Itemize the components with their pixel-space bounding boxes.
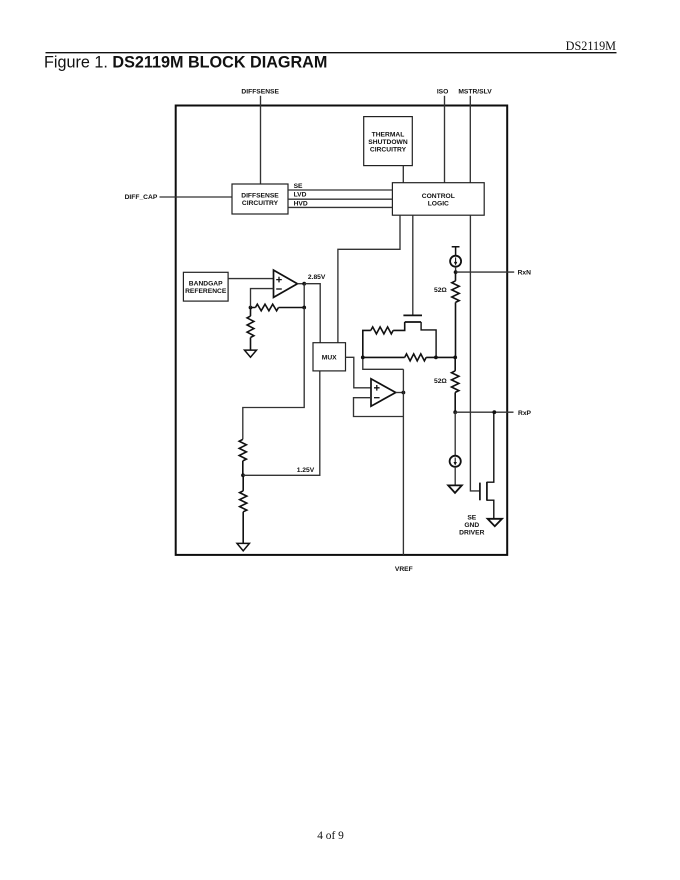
node feedback left junction [249, 306, 253, 310]
svg-text:THERMAL: THERMAL [372, 131, 405, 138]
svg-text:ISO: ISO [437, 89, 449, 96]
node U2 output junction [402, 391, 406, 395]
svg-text:DRIVER: DRIVER [459, 529, 484, 536]
block U7 MUX [313, 343, 346, 371]
ground G4 [488, 519, 502, 526]
wire bandgap to U1 noninverting input [228, 278, 273, 280]
wire U2 feedback loop [354, 398, 404, 417]
wire VREF vertical [402, 369, 404, 555]
transistor M2 SE GND driver [479, 483, 481, 501]
svg-text:VREF: VREF [395, 566, 413, 573]
wire 1.25V to MUX input [243, 371, 320, 475]
node RxN junction [454, 270, 458, 274]
wire RxP [455, 411, 513, 413]
transistor M1 [403, 314, 422, 316]
svg-text:Figure 1. DS2119M BLOCK DIAGRA: Figure 1. DS2119M BLOCK DIAGRAM [44, 54, 327, 72]
wire RxP node to I2 [454, 412, 456, 455]
block U5 DIFFSENSE CIRCUITRY [232, 184, 288, 214]
svg-text:52Ω: 52Ω [434, 378, 447, 385]
svg-text:BANDGAP: BANDGAP [189, 281, 223, 288]
svg-text:MUX: MUX [322, 354, 337, 361]
wire RxN [456, 271, 515, 273]
wire ISO pin to CONTROL LOGIC [444, 96, 446, 183]
svg-text:CIRCUITRY: CIRCUITRY [370, 146, 407, 153]
node B junction [434, 356, 438, 360]
wire thermal shutdown to control logic [402, 166, 404, 183]
node feedback right junction [302, 306, 306, 310]
svg-text:LOGIC: LOGIC [428, 201, 449, 208]
wire I2 to ground [454, 467, 456, 486]
node C junction [453, 356, 457, 360]
resistor R2 to ground [247, 308, 254, 351]
svg-text:DIFF_CAP: DIFF_CAP [125, 194, 158, 201]
resistor R6 middle [363, 354, 455, 361]
node RxP junction [453, 410, 457, 414]
ground G1 [245, 350, 257, 357]
op-amp U2 [371, 379, 396, 406]
svg-text:HVD: HVD [294, 200, 308, 207]
ground G2 [237, 543, 249, 550]
svg-text:52Ω: 52Ω [434, 287, 447, 294]
resistor R1 feedback [251, 304, 305, 311]
svg-text:CIRCUITRY: CIRCUITRY [242, 200, 279, 207]
resistor R3 divider upper [239, 439, 246, 475]
wire HVD net [288, 206, 392, 208]
supply tick [452, 247, 460, 256]
svg-text:GND: GND [464, 522, 479, 529]
wire U1 output [297, 283, 304, 285]
svg-text:SE: SE [467, 514, 476, 521]
wire node A to VREF rail [363, 357, 404, 369]
wire 2.85V to MUX input [304, 284, 320, 343]
wire U1 output to feedback node [303, 284, 305, 308]
wire LVD net [288, 198, 392, 200]
svg-text:DIFFSENSE: DIFFSENSE [241, 89, 279, 96]
block U3 THERMAL SHUTDOWN CIRCUITRY [364, 117, 413, 166]
wire 2.85V node down to divider [243, 308, 304, 440]
node M2 drain junction [492, 410, 496, 414]
svg-text:CONTROL: CONTROL [422, 193, 455, 200]
node 2.85V junction [302, 282, 306, 286]
svg-text:SE: SE [294, 183, 303, 190]
svg-text:4 of 9: 4 of 9 [317, 830, 344, 842]
svg-text:RxP: RxP [518, 410, 532, 417]
wire SE net [288, 189, 392, 191]
svg-text:DIFFSENSE: DIFFSENSE [241, 192, 279, 199]
svg-text:1.25V: 1.25V [297, 467, 315, 474]
resistor R5 top feedback [363, 322, 405, 357]
ground G3 [448, 485, 462, 493]
wire control logic to M2 gate [470, 215, 479, 491]
svg-text:DS2119M: DS2119M [566, 39, 617, 53]
svg-text:SHUTDOWN: SHUTDOWN [368, 139, 408, 146]
block U4 CONTROL LOGIC [392, 183, 484, 216]
svg-text:REFERENCE: REFERENCE [185, 288, 227, 295]
header rule [46, 52, 617, 54]
block U6 BANDGAP REFERENCE [183, 272, 228, 301]
current source I1 [450, 256, 461, 267]
svg-text:RxN: RxN [518, 270, 532, 277]
wire MUX output to U2 noninverting input [346, 357, 372, 388]
svg-text:LVD: LVD [294, 192, 307, 199]
wire MSTR/SLV pin to CONTROL LOGIC [469, 96, 471, 183]
wire control logic to MUX select [338, 215, 400, 343]
op-amp U1 [274, 270, 298, 297]
outer IC boundary box [176, 106, 508, 555]
resistor R4 divider lower [240, 475, 247, 543]
svg-text:MSTR/SLV: MSTR/SLV [458, 89, 492, 96]
wire feedback to U1 inverting input [251, 289, 274, 308]
wire DIFF_CAP pin to DIFFSENSE CIRCUITRY box [160, 196, 233, 198]
resistor R7 52ohm upper [452, 272, 459, 357]
wire I1 to RxN node [455, 267, 457, 272]
node A junction [361, 356, 365, 360]
wire control logic to M1 gate [412, 215, 414, 315]
current source I2 [450, 456, 461, 467]
svg-text:2.85V: 2.85V [308, 274, 326, 281]
wire U2 output [396, 392, 404, 394]
wire DIFFSENSE pin to DIFFSENSE CIRCUITRY box [260, 96, 262, 184]
node 1.25V junction [241, 473, 245, 477]
resistor R8 52ohm lower [452, 357, 459, 412]
